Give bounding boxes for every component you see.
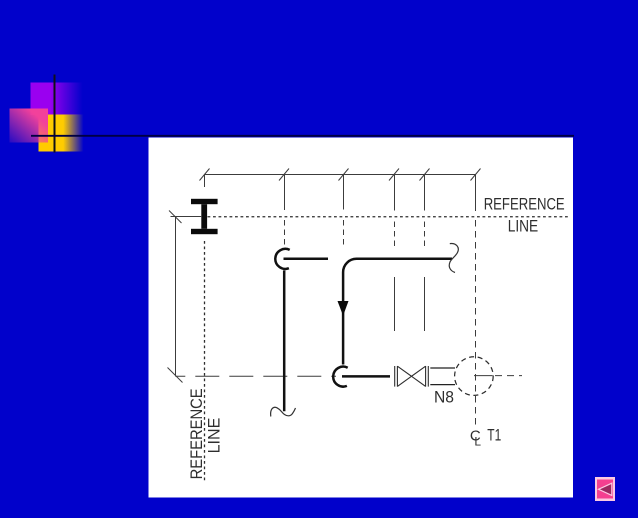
dashed extension continuation x=475.5 (through nozzle circle) (475, 220, 477, 429)
horizontal centerline (dashed, left) (175, 375, 336, 377)
pipe elbow (turn up) bottom (333, 367, 348, 387)
valve V (gate valve bowtie) (395, 366, 429, 387)
short solid line x=394 (394, 277, 396, 331)
dashed extension continuation x=284 (284, 220, 286, 247)
tick 3 (339, 169, 349, 181)
extension line below tick 2 (284, 175, 286, 211)
extension line below tick 6 (475, 175, 477, 212)
svg-text:LINE: LINE (508, 218, 539, 236)
decorative black vertical line (54, 75, 56, 153)
svg-text:T1: T1 (487, 426, 501, 444)
white drawing panel (149, 138, 574, 498)
tick 6 (471, 169, 481, 181)
decorative purple square (31, 83, 83, 116)
dashed extension continuation x=424.5 (424, 222, 426, 247)
decorative pink square (10, 109, 49, 143)
reference line (top, dotted) (208, 216, 571, 218)
pipe elbow (turn up) top-left (275, 249, 289, 269)
tick bottom of left dimension (168, 368, 183, 383)
pipe break squiggle (bottom of left riser) (271, 407, 296, 416)
svg-text:N8: N8 (434, 388, 454, 406)
extension line below tick 1 (204, 175, 206, 188)
pipe run: horizontal with corner down and riser (343, 259, 452, 365)
pipe stub from elbow (284, 258, 329, 261)
tick 1 (200, 169, 210, 181)
left vertical dimension line (175, 217, 177, 376)
flow arrow (down) (338, 301, 349, 316)
extension line below tick 3 (343, 175, 345, 210)
tick 4 (389, 169, 399, 181)
svg-text:REFERENCE: REFERENCE (187, 388, 206, 479)
back navigation button (595, 477, 615, 501)
reference line (top, solid left segment) (171, 216, 202, 218)
steel I-beam symbol (191, 199, 218, 234)
vertical pipe (left riser) (283, 270, 286, 411)
tick 5 (420, 169, 430, 181)
svg-text:REFERENCE: REFERENCE (484, 195, 565, 213)
tick 2 (279, 169, 289, 181)
horizontal centerline (dashed, right of circle) (495, 375, 522, 377)
nozzle circle (dashed) (455, 357, 494, 396)
dashed extension continuation x=343.5 (343, 220, 345, 246)
vertical dotted reference line (left) (204, 241, 206, 481)
tick top of left dimension (169, 211, 182, 224)
svg-text:L: L (474, 434, 481, 448)
decorative navy horizontal line (31, 135, 574, 137)
dashed extension continuation x=394 (394, 222, 396, 247)
horizontal centerline (solid inside circle) (474, 375, 493, 377)
dimension line (top) (205, 174, 477, 176)
short solid line x=424.5 (424, 277, 426, 331)
horizontal pipe from bottom elbow to valve (342, 375, 390, 378)
svg-text:LINE: LINE (204, 418, 223, 454)
decorative yellow square (39, 115, 84, 152)
extension line below tick 5 (424, 175, 426, 211)
pipe nipple to nozzle (430, 367, 455, 369)
pipe break squiggle (end of top run) (449, 244, 458, 273)
extension line below tick 4 (394, 175, 396, 211)
